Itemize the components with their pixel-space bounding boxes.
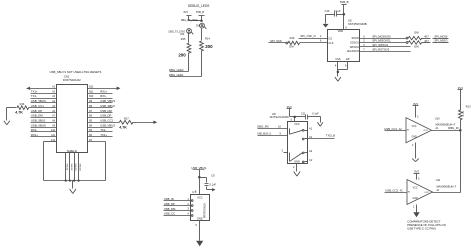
svg-text:0.1uF: 0.1uF [312, 112, 319, 116]
svg-text:R15: R15 [181, 37, 186, 41]
svg-text:TX2-: TX2- [100, 128, 106, 132]
svg-text:SPI_RST/IO3: SPI_RST/IO3 [372, 48, 389, 52]
svg-text:RX1+: RX1+ [100, 89, 107, 93]
svg-text:DNI: DNI [414, 45, 419, 49]
svg-text:USB_DM: USB_DM [100, 109, 112, 113]
svg-text:0.1uF: 0.1uF [334, 9, 341, 13]
svg-text:GND: GND [413, 198, 418, 200]
svg-text:SPI_MOSI: SPI_MOSI [434, 34, 447, 38]
svg-text:VCC: VCC [413, 188, 418, 190]
svg-text:R19: R19 [290, 36, 295, 40]
svg-text:USB_DM: USB_DM [164, 207, 176, 211]
svg-text:USB_SBU IS NOT USED-LTNG RESET: USB_SBU IS NOT USED-LTNG RESETS [50, 70, 102, 74]
svg-text:OUT: OUT [424, 192, 429, 194]
svg-text:3V3: 3V3 [183, 10, 188, 14]
svg-text:DNI: DNI [289, 45, 294, 49]
svg-text:DNI: DNI [180, 34, 184, 36]
svg-text:DNI: DNI [414, 30, 419, 34]
svg-text:SHLD3: SHLD3 [74, 163, 76, 171]
svg-text:DBG_RX_LTNG: DBG_RX_LTNG [181, 20, 198, 22]
svg-text:CLK: CLK [328, 41, 333, 45]
svg-text:VCC: VCC [294, 122, 300, 126]
svg-text:RX2+: RX2+ [31, 133, 38, 137]
svg-text:USB_DP: USB_DP [100, 114, 111, 118]
svg-text:SPI_MOSI/IO0: SPI_MOSI/IO0 [372, 34, 391, 38]
svg-text:R13: R13 [466, 105, 471, 109]
svg-text:R14: R14 [205, 37, 210, 41]
svg-text:RX2-: RX2- [31, 128, 37, 132]
svg-text:VDD: VDD [338, 29, 344, 33]
svg-text:USB_VBUS: USB_VBUS [31, 123, 46, 127]
svg-text:PRTR5V0U2X: PRTR5V0U2X [204, 203, 206, 218]
svg-text:SHLD2: SHLD2 [70, 163, 72, 171]
svg-text:3V3: 3V3 [414, 170, 419, 174]
svg-text:USB_CC2: USB_CC2 [385, 189, 398, 193]
svg-text:USB_ID: USB_ID [164, 197, 174, 201]
svg-text:USB_SBU1: USB_SBU1 [31, 118, 46, 122]
svg-text:SHLD4: SHLD4 [79, 163, 81, 171]
svg-text:USB_CC2: USB_CC2 [100, 118, 113, 122]
svg-text:U11: U11 [436, 178, 441, 182]
svg-text:VCC: VCC [197, 196, 203, 200]
svg-text:VCC: VCC [412, 126, 417, 128]
svg-text:USB_DM: USB_DM [31, 114, 43, 118]
svg-text:U10: U10 [435, 116, 440, 120]
svg-text:HOLD/IO3: HOLD/IO3 [347, 49, 360, 53]
svg-text:0.1uF: 0.1uF [210, 183, 217, 187]
svg-text:200: 200 [178, 53, 186, 58]
svg-text:4.7K: 4.7K [119, 125, 127, 129]
svg-text:WP/IO2: WP/IO2 [350, 45, 360, 49]
svg-text:DBG_LED1: DBG_LED1 [169, 73, 184, 77]
svg-text:USB_CC1: USB_CC1 [31, 104, 44, 108]
svg-text:200: 200 [205, 44, 213, 49]
svg-text:USB_DP: USB_DP [31, 109, 42, 113]
svg-text:MAX9060EUK+T: MAX9060EUK+T [437, 184, 457, 188]
svg-text:CS: CS [328, 36, 332, 40]
svg-text:SPI_CSF_N: SPI_CSF_N [300, 34, 315, 38]
svg-text:SO/IO1: SO/IO1 [350, 40, 359, 44]
svg-text:TX1-: TX1- [31, 94, 37, 98]
svg-text:TXD_B: TXD_B [326, 133, 335, 137]
svg-text:USB_SBU2: USB_SBU2 [100, 104, 115, 108]
svg-text:5VB_B: 5VB_B [196, 10, 204, 14]
svg-text:USB_CC: USB_CC [164, 212, 175, 216]
svg-text:TX1+: TX1+ [31, 89, 38, 93]
svg-text:4K7: 4K7 [424, 35, 429, 39]
svg-text:C9: C9 [211, 174, 215, 178]
svg-text:USB_VBUS: USB_VBUS [100, 99, 115, 103]
svg-text:5VB_B: 5VB_B [340, 0, 349, 4]
svg-text:C10: C10 [325, 9, 330, 13]
svg-text:DNI: DNI [196, 25, 200, 27]
svg-text:A2: A2 [309, 149, 313, 153]
svg-text:DBG_LED2: DBG_LED2 [169, 68, 184, 72]
svg-text:4K7: 4K7 [424, 39, 429, 43]
svg-text:EP: EP [346, 57, 350, 61]
svg-text:4.7K: 4.7K [15, 111, 23, 115]
svg-text:SST25VF040B: SST25VF040B [348, 22, 367, 26]
svg-text:GND: GND [412, 136, 417, 138]
svg-text:USB TYPE-C CC PINS: USB TYPE-C CC PINS [407, 226, 436, 230]
svg-text:USB_VBUS: USB_VBUS [31, 99, 46, 103]
svg-text:SI/IO0: SI/IO0 [351, 36, 359, 40]
svg-text:OUT: OUT [423, 130, 428, 132]
svg-text:C11: C11 [301, 112, 306, 116]
svg-text:B10: B10 [89, 96, 94, 98]
svg-text:R17: R17 [124, 117, 129, 121]
svg-text:USB_DP: USB_DP [164, 202, 175, 206]
svg-text:4.7K: 4.7K [461, 111, 465, 117]
svg-text:GND: GND [197, 217, 203, 221]
svg-text:TX2+: TX2+ [100, 133, 107, 137]
svg-text:DX07S024JJ2: DX07S024JJ2 [63, 78, 81, 82]
svg-text:DBG_TX_LTNG: DBG_TX_LTNG [169, 31, 186, 33]
svg-text:RX1-: RX1- [100, 94, 106, 98]
svg-text:DEBUG_LEDS: DEBUG_LEDS [188, 4, 209, 8]
svg-text:C2: C2 [309, 158, 313, 162]
svg-text:SHIELD: SHIELD [67, 149, 77, 153]
svg-text:DBG_ID: DBG_ID [448, 126, 458, 130]
svg-text:VSS: VSS [335, 57, 340, 61]
svg-text:GND: GND [294, 160, 300, 164]
svg-text:DBG_RX: DBG_RX [257, 124, 269, 128]
svg-text:SHLD1: SHLD1 [66, 163, 68, 171]
svg-text:SN74LVC2G66: SN74LVC2G66 [270, 115, 290, 119]
svg-text:USB_CC1: USB_CC1 [384, 127, 397, 131]
svg-text:USB_VBUS: USB_VBUS [100, 123, 115, 127]
svg-text:A1: A1 [309, 127, 313, 131]
svg-text:R16: R16 [20, 102, 25, 106]
